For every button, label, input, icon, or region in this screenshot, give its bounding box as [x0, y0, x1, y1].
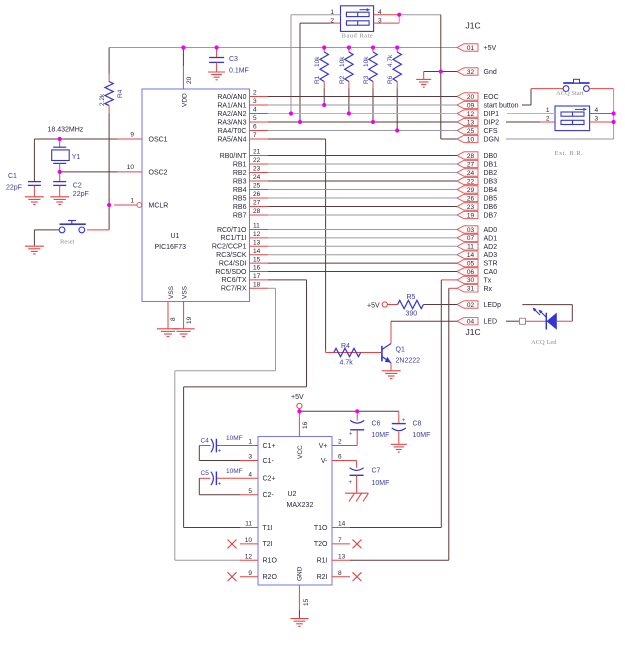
svg-text:R4: R4	[117, 89, 124, 98]
wire AD0 net	[268, 229, 457, 231]
svg-text:+5V: +5V	[367, 303, 380, 310]
ground at Q1 emitter	[382, 371, 401, 379]
capacitor C5 10MF	[199, 468, 242, 487]
svg-text:23: 23	[253, 166, 261, 173]
svg-text:R6: R6	[387, 75, 394, 84]
svg-text:18.432MHz: 18.432MHz	[48, 127, 84, 134]
svg-text:Tx: Tx	[484, 277, 492, 284]
svg-text:DB5: DB5	[484, 196, 498, 203]
svg-text:RB5: RB5	[233, 195, 247, 202]
svg-text:J1C: J1C	[466, 21, 481, 31]
svg-text:4: 4	[248, 472, 252, 479]
wire Gnd row	[424, 71, 457, 73]
svg-text:20: 20	[467, 94, 475, 101]
svg-text:Y1: Y1	[72, 154, 81, 161]
svg-text:DB4: DB4	[484, 187, 498, 194]
svg-text:RB6: RB6	[233, 204, 247, 211]
svg-text:26: 26	[253, 191, 261, 198]
resistor R5 390	[387, 294, 423, 318]
capacitor C8 10MF	[392, 411, 431, 444]
svg-text:390: 390	[406, 311, 418, 318]
wire RA5/AN4 to transistor base resistor	[268, 139, 334, 353]
connector J1C pin 32 Gnd	[457, 68, 497, 76]
connector J1C pin 05 STR	[457, 259, 498, 267]
svg-text:05: 05	[467, 260, 475, 267]
svg-text:R3: R3	[363, 75, 370, 84]
resistor R3 10k pull-up	[363, 48, 377, 123]
svg-text:T2I: T2I	[263, 541, 273, 548]
wire DIP1 net	[268, 113, 457, 115]
svg-text:T2O: T2O	[314, 541, 328, 548]
svg-text:R2: R2	[339, 75, 346, 84]
wire U2 GND pin 15	[299, 585, 310, 618]
wire DB6 net	[268, 206, 457, 208]
svg-text:Reset: Reset	[60, 239, 75, 246]
wire C4 to C1- pin	[199, 446, 240, 461]
connector J1C pin 07 AD1	[457, 234, 497, 242]
svg-text:24: 24	[467, 170, 475, 177]
wire DB0 net	[268, 155, 457, 157]
svg-text:Gnd: Gnd	[484, 69, 497, 76]
wire R4 to MCLR node	[108, 113, 110, 205]
svg-text:13: 13	[253, 240, 261, 247]
+5V terminal at U2 VCC	[291, 394, 304, 411]
no-connect X at R2I	[353, 572, 362, 581]
DIP switch S1 Baud Rate	[341, 6, 374, 32]
svg-text:10: 10	[245, 537, 253, 544]
wire DIP2 to ext BR pin 2	[506, 121, 555, 123]
op-amp U2 MAX232 body	[258, 437, 332, 586]
wire RC6/TX to MAX232 T1I	[184, 280, 307, 528]
svg-text:C5: C5	[201, 470, 210, 477]
svg-text:10k: 10k	[339, 56, 346, 67]
svg-text:25: 25	[467, 128, 475, 135]
svg-text:C2+: C2+	[263, 476, 276, 483]
svg-text:24: 24	[253, 174, 261, 181]
resistor R2 10k pull-up	[339, 48, 353, 114]
U2 right pin labels and numbers	[314, 439, 346, 581]
svg-text:2: 2	[253, 90, 257, 97]
wire ACQ Led anode loop	[522, 305, 572, 322]
svg-text:GND: GND	[297, 566, 304, 581]
wire vertical to DGN and Gnd	[441, 15, 457, 139]
svg-text:5: 5	[248, 488, 252, 495]
svg-text:U1: U1	[171, 233, 180, 240]
svg-text:10MF: 10MF	[413, 432, 431, 439]
svg-text:RC7/RX: RC7/RX	[221, 286, 247, 293]
svg-text:RC1/T1I: RC1/T1I	[220, 235, 246, 242]
svg-text:10k: 10k	[314, 56, 321, 67]
wire DIP1 to ext BR pin 1	[507, 113, 555, 115]
svg-text:22: 22	[253, 157, 261, 164]
svg-text:OSC2: OSC2	[149, 170, 168, 177]
svg-text:8: 8	[338, 570, 342, 577]
svg-text:+: +	[402, 418, 406, 424]
transistor Q1 2N2222	[332, 344, 420, 365]
baud rate pin numbers	[330, 9, 382, 25]
svg-text:RA1/AN1: RA1/AN1	[217, 102, 246, 109]
svg-text:VSS: VSS	[182, 285, 189, 299]
svg-text:LED: LED	[484, 319, 498, 326]
wire Q1 emitter to ground	[390, 363, 392, 371]
svg-text:MAX232: MAX232	[287, 502, 314, 509]
svg-text:DB7: DB7	[484, 213, 498, 220]
wire AD2 net	[268, 245, 457, 247]
svg-text:V-: V-	[321, 458, 328, 465]
svg-text:EOC: EOC	[484, 94, 499, 101]
svg-text:10MF: 10MF	[372, 480, 390, 487]
connector J1C pin 01 +5V	[457, 44, 496, 52]
svg-text:20: 20	[186, 76, 193, 84]
svg-text:9: 9	[248, 570, 252, 577]
svg-text:15: 15	[253, 256, 261, 263]
svg-text:15: 15	[303, 598, 310, 606]
wire baud switch to DGN vertical	[399, 14, 441, 16]
svg-text:2: 2	[338, 439, 342, 446]
svg-text:11: 11	[253, 223, 260, 230]
svg-text:R5: R5	[407, 294, 416, 301]
+5V terminal at R5	[367, 302, 387, 310]
wire OSC2 net	[60, 171, 118, 173]
U1 pin 9 OSC1 stub	[118, 131, 142, 139]
U2 right pin stubs	[332, 446, 350, 577]
connector J1C pin 12 DIP1	[457, 110, 499, 118]
wire start button net	[268, 104, 457, 106]
wire DB2 net	[268, 172, 457, 174]
no-connect X at T2O	[353, 540, 362, 549]
connector J1C pin 02 LEDp	[457, 301, 501, 309]
svg-text:03: 03	[467, 227, 475, 234]
svg-text:RC3/SCK: RC3/SCK	[216, 252, 247, 259]
no-connect X at T2I	[228, 540, 237, 549]
connector J1C pin 14 AD3	[457, 251, 497, 259]
svg-text:OSC1: OSC1	[149, 137, 168, 144]
U2 left pin labels and numbers	[245, 439, 278, 581]
wire DB4 net	[268, 189, 457, 191]
svg-text:26: 26	[467, 195, 475, 202]
wire start button to ACQ Start	[522, 89, 563, 105]
wire reset to ground	[33, 230, 35, 246]
svg-text:+5V: +5V	[291, 394, 304, 401]
pushbutton Reset	[34, 221, 85, 246]
connector J1C pin 03 AD0	[457, 226, 497, 234]
connector J1C pin 26 DB5	[457, 194, 497, 202]
svg-text:AD3: AD3	[484, 252, 498, 259]
svg-text:28: 28	[467, 153, 475, 160]
svg-text:start button: start button	[484, 103, 519, 110]
svg-text:C2: C2	[73, 183, 82, 190]
svg-text:RC2/CCP1: RC2/CCP1	[212, 244, 247, 251]
svg-text:5: 5	[253, 115, 257, 122]
crystal Y1	[52, 139, 81, 172]
svg-text:AD0: AD0	[484, 227, 498, 234]
U1 pin 8 VSS wire	[168, 302, 177, 329]
svg-text:2.2k: 2.2k	[99, 93, 106, 106]
svg-text:12: 12	[467, 111, 475, 118]
ground at Gnd connector	[416, 72, 431, 88]
U1 right pin stubs	[250, 97, 269, 289]
capacitor C1 22pF	[6, 173, 41, 197]
resistor R6 4.7k pull-up	[387, 48, 401, 131]
svg-text:8: 8	[170, 317, 177, 321]
svg-text:18: 18	[253, 282, 261, 289]
wire DB7 net	[268, 214, 457, 216]
wire EOC net	[268, 96, 457, 98]
svg-text:R4: R4	[341, 343, 350, 350]
svg-text:25: 25	[253, 183, 261, 190]
svg-text:R1I: R1I	[317, 558, 328, 565]
svg-text:R2O: R2O	[263, 574, 278, 581]
ground at C1	[25, 197, 44, 205]
svg-text:DIP2: DIP2	[484, 120, 500, 127]
svg-text:04: 04	[467, 319, 475, 326]
wire +5V to C6 and C8	[299, 410, 398, 412]
svg-text:10: 10	[467, 136, 475, 143]
svg-text:+: +	[218, 449, 222, 455]
connector J1C pin 04 LED	[457, 318, 497, 326]
svg-text:01: 01	[467, 45, 475, 52]
wire DB5 net	[268, 197, 457, 199]
connector J1C pin 24 DB2	[457, 169, 497, 177]
connector J1C pin 23 DB6	[457, 203, 497, 211]
svg-text:10MF: 10MF	[372, 432, 390, 439]
connector J1C pin 25 CFS	[457, 127, 498, 135]
wire STR net	[268, 262, 457, 264]
svg-text:10: 10	[127, 164, 135, 171]
svg-text:7: 7	[253, 132, 257, 139]
svg-text:RB1: RB1	[233, 161, 247, 168]
connector J1C pin 30 Tx	[457, 276, 492, 284]
svg-text:10k: 10k	[363, 56, 370, 67]
svg-text:+: +	[349, 432, 353, 438]
svg-text:+5V: +5V	[484, 45, 497, 52]
svg-text:1: 1	[130, 197, 134, 204]
resistor R4 2.2k	[99, 48, 124, 114]
svg-text:DGN: DGN	[484, 137, 500, 144]
svg-text:19: 19	[467, 212, 475, 219]
connector J1C pin 11 AD2	[457, 243, 497, 251]
svg-text:10MF: 10MF	[226, 468, 243, 475]
svg-text:C8: C8	[413, 421, 422, 428]
wire VCC pin 16	[299, 411, 309, 436]
svg-text:RB2: RB2	[233, 170, 247, 177]
connector J1C pin 28 DB0	[457, 152, 497, 160]
svg-text:DIP1: DIP1	[484, 111, 500, 118]
wire Tx connector to MAX232 T1O	[350, 280, 457, 528]
ground at VSS pin 8	[157, 329, 179, 337]
svg-text:DB6: DB6	[484, 204, 498, 211]
svg-text:32: 32	[467, 69, 475, 76]
wire DGN row right segment	[506, 138, 614, 140]
svg-text:T1I: T1I	[263, 525, 273, 532]
svg-text:C1: C1	[8, 173, 17, 180]
ext BR pin numbers	[546, 107, 599, 123]
svg-text:06: 06	[467, 269, 475, 276]
svg-text:28: 28	[253, 208, 261, 215]
wire RC7/RX to MAX232 R1O	[175, 288, 276, 560]
svg-text:19: 19	[186, 316, 193, 324]
svg-text:16: 16	[302, 421, 309, 429]
capacitor C4 10MF	[199, 435, 242, 455]
svg-text:RC6/TX: RC6/TX	[222, 277, 247, 284]
svg-text:12: 12	[245, 554, 253, 561]
svg-text:VSS: VSS	[168, 285, 175, 299]
svg-text:C2-: C2-	[263, 492, 275, 499]
svg-text:RA5/AN4: RA5/AN4	[217, 136, 246, 143]
svg-text:Rx: Rx	[484, 286, 493, 293]
svg-text:R2I: R2I	[317, 574, 328, 581]
svg-text:22: 22	[467, 178, 475, 185]
svg-text:+: +	[349, 480, 353, 486]
svg-text:DB2: DB2	[484, 170, 498, 177]
svg-text:14: 14	[253, 248, 261, 255]
wire CA0 net	[268, 271, 457, 273]
ground at C2	[50, 197, 69, 205]
svg-text:U2: U2	[288, 491, 297, 498]
terminal pad of ACQ Led	[520, 318, 526, 324]
wire ext BR pin 4	[590, 113, 614, 115]
svg-text:Q1: Q1	[396, 347, 405, 354]
svg-text:C4: C4	[201, 437, 210, 444]
svg-text:27: 27	[253, 200, 261, 207]
U1 right pin numbers	[253, 90, 261, 289]
svg-text:ACQ Start: ACQ Start	[556, 90, 584, 97]
connector J1C pin 20 EOC	[457, 93, 499, 101]
wire R5 to LEDp connector	[423, 304, 457, 306]
pushbutton ACQ Start	[556, 79, 590, 97]
svg-text:C7: C7	[372, 468, 381, 475]
capacitor C6 10MF	[349, 411, 389, 445]
svg-text:RB7: RB7	[233, 212, 247, 219]
wire OSC1 to C1	[33, 139, 35, 181]
svg-text:14: 14	[467, 252, 475, 259]
connector J1C pin 27 DB1	[457, 160, 497, 168]
svg-text:6: 6	[338, 454, 342, 461]
svg-text:Baud Rate: Baud Rate	[342, 33, 374, 40]
LED D1 ACQ Led	[526, 308, 558, 347]
wire OSC2 node to C2	[59, 172, 61, 181]
U1 pin 20 VDD wire up to +5V rail	[183, 48, 193, 90]
svg-text:DB1: DB1	[484, 162, 498, 169]
connector J1C pin 10 DGN	[457, 135, 499, 143]
svg-text:13: 13	[467, 119, 475, 126]
svg-text:07: 07	[467, 235, 475, 242]
svg-text:27: 27	[467, 161, 475, 168]
svg-text:RB3: RB3	[233, 178, 247, 185]
wire Rx connector to MAX232 R1I	[350, 288, 457, 560]
svg-text:3: 3	[248, 454, 252, 461]
wire baud pin 2 to DIP2 row	[300, 23, 341, 122]
svg-text:31: 31	[467, 286, 475, 293]
svg-text:30: 30	[467, 277, 475, 284]
ground at U2 GND	[290, 619, 308, 627]
svg-text:MCLR: MCLR	[149, 203, 169, 210]
svg-text:RA2/AN2: RA2/AN2	[217, 111, 246, 118]
svg-text:02: 02	[467, 302, 475, 309]
connector J1C pin 06 CA0	[457, 268, 497, 276]
svg-text:0.1MF: 0.1MF	[229, 68, 249, 75]
svg-text:R1O: R1O	[263, 558, 278, 565]
svg-text:J1C: J1C	[466, 327, 481, 337]
DIP switch Ext. B.R.	[555, 106, 590, 131]
wire AD1 net	[268, 237, 457, 239]
connector J1C pin 31 Rx	[457, 285, 493, 293]
U1 pin 1 MCLR stub with inverting bubble	[114, 197, 142, 207]
svg-text:DB0: DB0	[484, 153, 498, 160]
wire baud pin 3	[374, 15, 400, 23]
ground at reset button	[25, 246, 44, 254]
connector J1C pin 09 start button	[457, 101, 519, 109]
wire baud pin 4	[374, 14, 400, 16]
svg-text:CA0: CA0	[484, 269, 498, 276]
svg-text:C3: C3	[229, 56, 238, 63]
svg-text:RA3/AN3: RA3/AN3	[217, 119, 246, 126]
svg-text:1: 1	[248, 439, 252, 446]
svg-text:7: 7	[338, 537, 342, 544]
U1 pin 10 OSC2 stub	[118, 164, 142, 172]
resistor R4 4.7k base resistor	[334, 343, 382, 367]
svg-text:3: 3	[253, 98, 257, 105]
svg-text:V+: V+	[319, 443, 328, 450]
svg-text:23: 23	[467, 204, 475, 211]
svg-text:Ext. B.R.: Ext. B.R.	[555, 150, 584, 157]
svg-text:4.7k: 4.7k	[387, 54, 394, 67]
svg-text:09: 09	[467, 102, 475, 109]
wire DB1 net	[268, 163, 457, 165]
wire DB3 net	[268, 180, 457, 182]
svg-text:C1+: C1+	[263, 443, 276, 450]
connector J1C pin 22 DB3	[457, 177, 497, 185]
svg-text:16: 16	[253, 265, 261, 272]
wire MCLR node down to reset button	[87, 205, 109, 230]
svg-text:9: 9	[130, 131, 134, 138]
svg-text:RC5/SDO: RC5/SDO	[215, 269, 247, 276]
svg-text:CFS: CFS	[484, 128, 498, 135]
svg-text:C6: C6	[372, 421, 381, 428]
svg-text:RB4: RB4	[233, 187, 247, 194]
wire LED connector to ACQ Led pad	[506, 320, 519, 322]
svg-text:4.7k: 4.7k	[340, 360, 354, 367]
svg-text:6: 6	[253, 124, 257, 131]
svg-text:4: 4	[253, 107, 257, 114]
wire +5V rail	[109, 47, 457, 49]
svg-text:21: 21	[253, 149, 261, 156]
svg-text:RA0/AN0: RA0/AN0	[217, 94, 246, 101]
capacitor C3 0.1MF	[209, 48, 249, 75]
svg-text:AD1: AD1	[484, 235, 498, 242]
svg-text:LEDp: LEDp	[484, 302, 502, 309]
wire baud pin 1 to DIP1 row	[291, 15, 341, 114]
U1 pin 19 VSS wire	[184, 302, 193, 329]
capacitor C7 10MF	[349, 461, 390, 493]
no-connect X at R2O	[228, 572, 237, 581]
svg-text:RC4/SDI: RC4/SDI	[219, 260, 247, 267]
connector J1C pin 19 DB7	[457, 211, 497, 219]
svg-text:RA4/T0C: RA4/T0C	[218, 128, 247, 135]
svg-text:13: 13	[338, 554, 346, 561]
svg-text:PIC16F73: PIC16F73	[155, 244, 187, 251]
svg-text:RC0/T1O: RC0/T1O	[217, 227, 247, 234]
svg-text:ACQ Led: ACQ Led	[531, 339, 557, 346]
svg-text:12: 12	[253, 231, 261, 238]
svg-text:VCC: VCC	[297, 445, 304, 459]
svg-text:DB3: DB3	[484, 179, 498, 186]
capacitor C2 22pF	[53, 182, 89, 198]
svg-text:+: +	[218, 481, 222, 487]
svg-text:AD2: AD2	[484, 244, 498, 251]
svg-text:22pF: 22pF	[6, 185, 22, 192]
connector J1C pin 29 DB4	[457, 186, 497, 194]
